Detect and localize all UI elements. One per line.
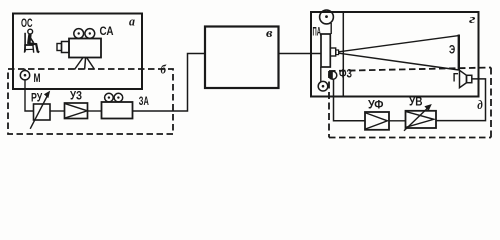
wire v to projector bbox=[279, 53, 322, 55]
RU variable arrow bbox=[30, 96, 47, 129]
person on chair OC bbox=[24, 29, 39, 53]
projector bottom reel bbox=[318, 81, 328, 91]
UV variable arrow bbox=[404, 108, 428, 131]
svg-text:г: г bbox=[469, 11, 476, 26]
microphone M bbox=[20, 69, 29, 80]
svg-text:УЗ: УЗ bbox=[70, 89, 82, 103]
loudspeaker G bbox=[460, 70, 472, 87]
recorder ZA bbox=[102, 93, 133, 118]
light beam bottom edge bbox=[339, 53, 459, 70]
svg-text:ФЗ: ФЗ bbox=[339, 67, 352, 81]
projector lens bbox=[330, 48, 335, 56]
camera reel left bbox=[74, 29, 84, 39]
camera body bbox=[69, 39, 101, 58]
playback amplifier UV bbox=[406, 111, 437, 128]
screen E bbox=[458, 35, 460, 71]
svg-text:РУ: РУ bbox=[31, 91, 43, 105]
film copying box v bbox=[205, 27, 279, 89]
wire UZ to ZA bbox=[88, 110, 102, 112]
wire RU to UZ bbox=[50, 110, 65, 112]
camera tripod bbox=[75, 58, 84, 70]
projector head bbox=[321, 34, 330, 67]
svg-text:в: в bbox=[266, 25, 273, 40]
photo amplifier UF bbox=[365, 112, 389, 130]
sound recording dashed box b bbox=[8, 69, 173, 134]
studio box a bbox=[13, 14, 142, 90]
svg-text:д: д bbox=[477, 97, 483, 112]
svg-text:Э: Э bbox=[449, 43, 456, 57]
wire M to RU bbox=[25, 80, 34, 111]
svg-text:ЗА: ЗА bbox=[139, 94, 149, 108]
svg-text:ОС: ОС bbox=[21, 16, 33, 30]
svg-text:ПА: ПА bbox=[313, 25, 322, 39]
projection booth wall bbox=[342, 12, 344, 97]
film from top reel bbox=[330, 23, 332, 34]
cinema hall box g bbox=[311, 12, 479, 97]
film to bottom reel bbox=[320, 67, 322, 82]
svg-text:СА: СА bbox=[100, 24, 114, 38]
projector top reel bbox=[320, 10, 334, 24]
svg-text:Г: Г bbox=[453, 71, 459, 85]
light beam top edge bbox=[339, 36, 459, 52]
svg-text:б: б bbox=[161, 62, 167, 77]
camera lens bbox=[62, 42, 70, 53]
level regulator RU bbox=[34, 104, 51, 120]
wire UV to loudspeaker bbox=[436, 79, 486, 121]
photocell FZ bbox=[329, 71, 337, 79]
svg-text:УФ: УФ bbox=[368, 98, 384, 112]
camera reel right bbox=[85, 29, 95, 39]
svg-text:а: а bbox=[129, 14, 135, 29]
wire ZA to box v bbox=[133, 54, 206, 112]
movie camera CA bbox=[57, 29, 101, 70]
wire UF to UV bbox=[389, 120, 406, 122]
svg-text:М: М bbox=[34, 71, 41, 85]
wire FZ to UF bbox=[334, 79, 366, 120]
svg-text:УВ: УВ bbox=[409, 95, 423, 109]
recording amplifier UZ bbox=[65, 103, 88, 119]
playback dashed box d bbox=[329, 68, 491, 72]
